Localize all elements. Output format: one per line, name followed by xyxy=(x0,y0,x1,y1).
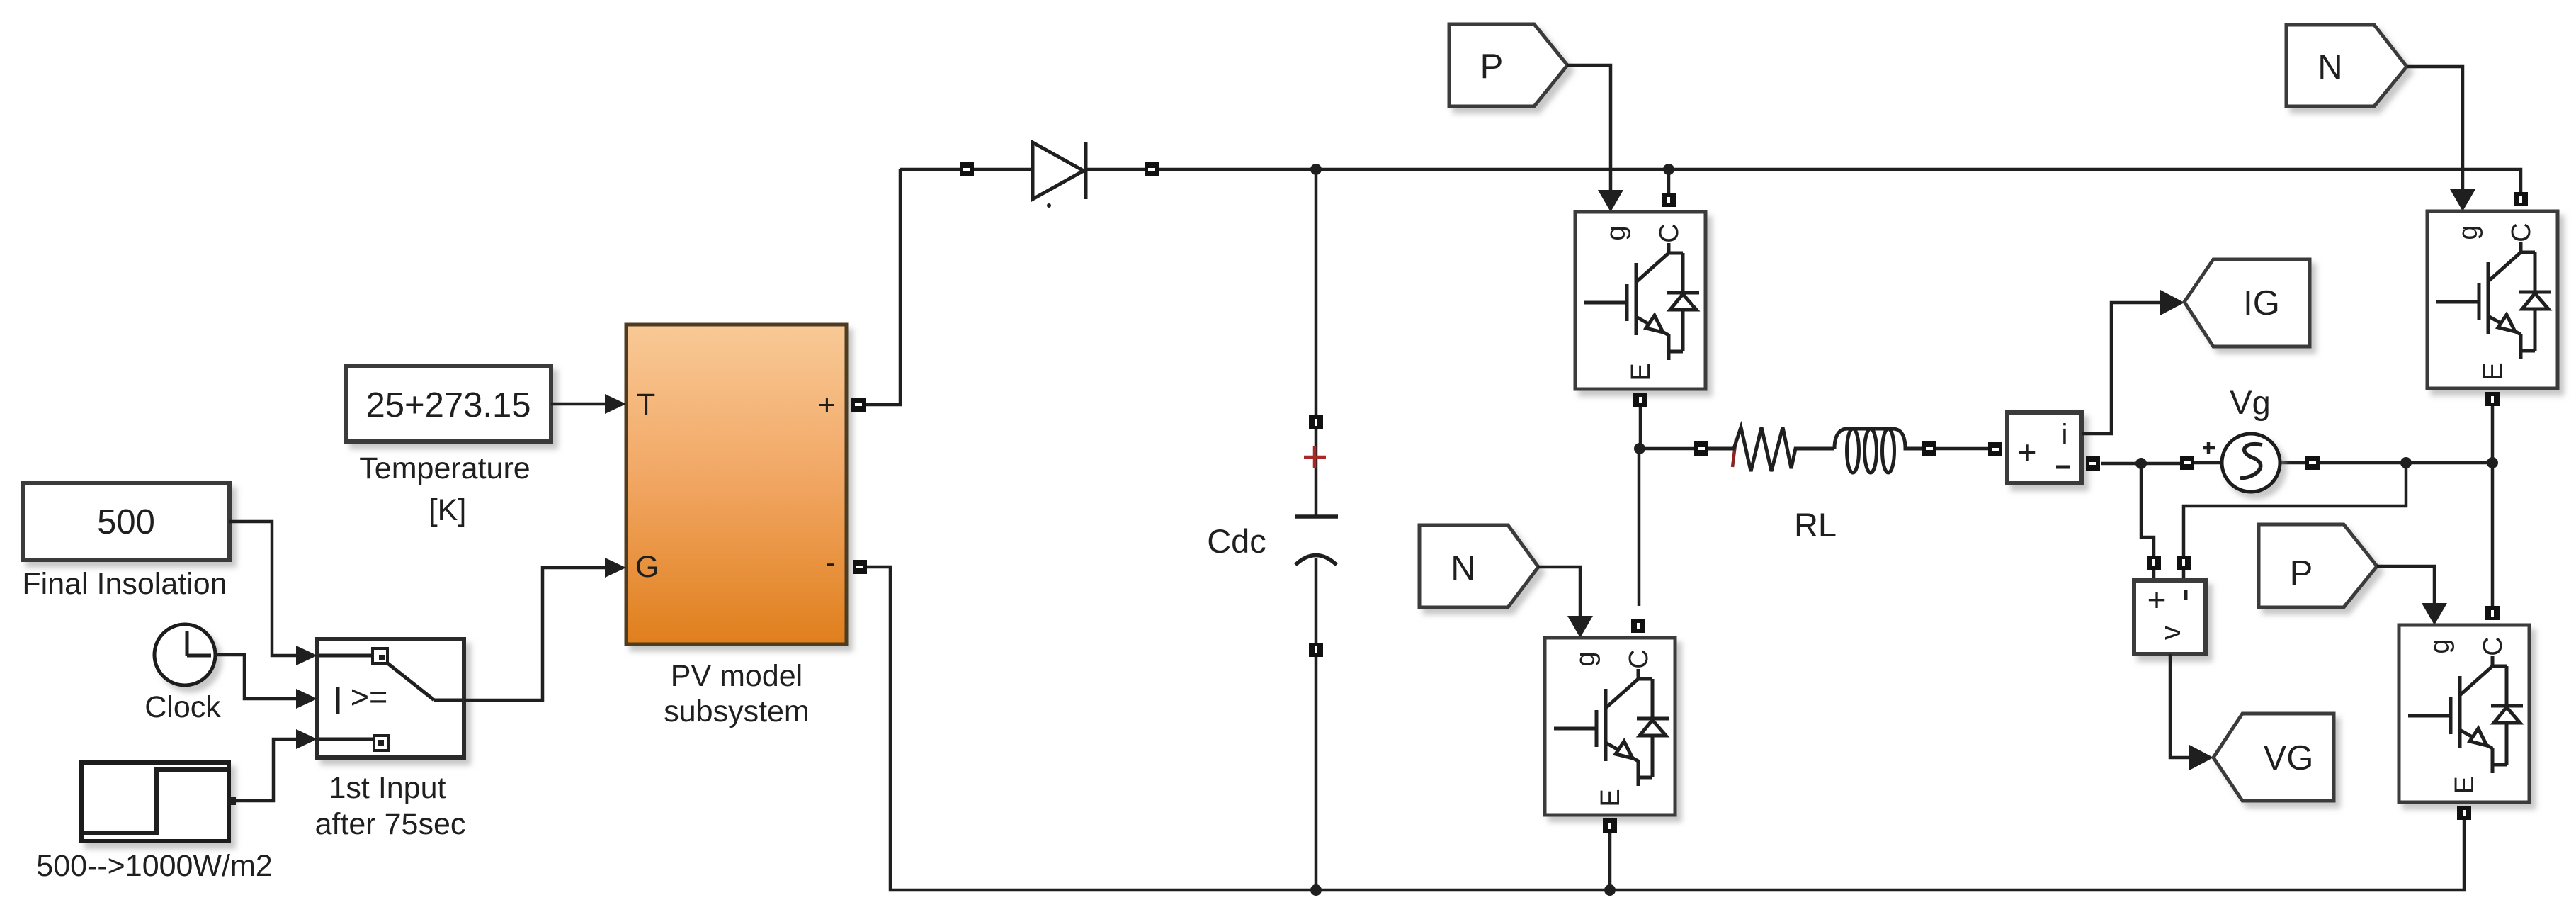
Cdc port top xyxy=(1309,415,1323,429)
svg-text:Final Insolation: Final Insolation xyxy=(22,567,227,601)
right leg vertical wire xyxy=(2491,406,2495,606)
svg-text:[K]: [K] xyxy=(429,493,467,527)
wire RL to i meter xyxy=(1936,447,1988,451)
svg-text:after 75sec: after 75sec xyxy=(315,807,466,841)
node Vm plus junction xyxy=(2135,458,2147,469)
wire IGBT1 E down to RL junction and IGBT2 C xyxy=(1639,407,1694,606)
wire V meter to VG xyxy=(2170,654,2190,758)
transistor IGBT3 xyxy=(2399,606,2529,820)
top bus wire xyxy=(900,169,2521,192)
current measurement block xyxy=(2007,412,2082,483)
junction IGBT2 E bus xyxy=(1604,884,1616,896)
svg-text:Cdc: Cdc xyxy=(1207,522,1266,560)
svg-text:Temperature: Temperature xyxy=(359,451,530,485)
transistor IGBT2 xyxy=(1545,619,1675,833)
resistor R xyxy=(1708,427,1834,471)
constant block 25+273.15 xyxy=(346,366,551,441)
svg-text:>=: >= xyxy=(351,679,388,715)
svg-text:25+273.15: 25+273.15 xyxy=(366,386,531,424)
PV - port xyxy=(853,560,867,574)
goto tag P top xyxy=(1449,24,1567,106)
svg-text:+: + xyxy=(2018,434,2037,471)
constant block 500 xyxy=(23,483,229,560)
svg-text:1st Input: 1st Input xyxy=(329,771,446,805)
voltage measurement block xyxy=(2134,580,2206,654)
wire junction to V+ input xyxy=(2141,463,2154,580)
wire right junction to V input xyxy=(2184,463,2406,580)
wire switch to PV G xyxy=(464,568,606,700)
from tag IG xyxy=(2184,259,2310,347)
inductor L xyxy=(1834,429,1922,449)
RL port left xyxy=(1694,441,1708,456)
PV model subsystem block xyxy=(626,325,846,644)
wire step to switch in3 xyxy=(234,739,297,801)
goto tag N mid xyxy=(1419,525,1538,607)
diode D xyxy=(1033,142,1086,199)
bottom bus wire xyxy=(867,567,2464,890)
plus sign xyxy=(2203,442,2215,454)
svg-text:N: N xyxy=(2317,48,2342,86)
svg-text:subsystem: subsystem xyxy=(664,694,810,728)
svg-text:RL: RL xyxy=(1794,506,1837,544)
wire N to IGBT4 g xyxy=(2407,67,2463,191)
node RL junction xyxy=(1634,443,1645,454)
diode port right xyxy=(1145,162,1159,176)
svg-text:v: v xyxy=(2155,626,2186,640)
red plus marker xyxy=(1304,446,1326,468)
goto tag N top right xyxy=(2286,25,2407,106)
wire P to IGBT3 g xyxy=(2377,566,2434,604)
diode port left xyxy=(960,162,974,176)
PV + port xyxy=(851,398,866,412)
svg-text:-: - xyxy=(826,546,836,580)
svg-text:Vg: Vg xyxy=(2230,383,2271,421)
wire i measurement to IG xyxy=(2082,303,2162,434)
wire i meter out to source xyxy=(2101,463,2492,463)
Cdc branch xyxy=(1315,175,1318,890)
clock block xyxy=(154,624,215,685)
wire P to IGBT1 g xyxy=(1567,65,1611,191)
junction IGBT1 C xyxy=(1663,164,1674,175)
svg-text:T: T xyxy=(637,388,655,422)
wire temp to PV T xyxy=(551,403,606,406)
svg-text:Clock: Clock xyxy=(144,690,221,724)
step block xyxy=(81,763,236,841)
V meter port v xyxy=(2177,556,2191,570)
svg-text:P: P xyxy=(1480,47,1504,86)
svg-text:+: + xyxy=(2147,581,2167,618)
svg-text:PV model: PV model xyxy=(671,659,802,693)
wire PV+ up to top bus xyxy=(866,169,900,405)
svg-text:IG: IG xyxy=(2243,284,2280,322)
capacitor Cdc xyxy=(1295,517,1338,565)
Cdc port bottom xyxy=(1309,643,1323,657)
i meter output port xyxy=(2086,456,2100,471)
wire clock to switch in2 xyxy=(215,655,297,699)
wire N to IGBT2 g xyxy=(1538,567,1580,617)
svg-text:500: 500 xyxy=(97,503,155,541)
RL port right xyxy=(1922,441,1936,456)
svg-text:P: P xyxy=(2290,554,2313,592)
stub to IGBT1 C xyxy=(1667,169,1671,193)
goto tag P bottom xyxy=(2259,524,2377,607)
wire 500 to switch in1 xyxy=(229,522,297,656)
i meter input port xyxy=(1988,442,2002,456)
svg-text:VG: VG xyxy=(2264,739,2314,777)
svg-text:i: i xyxy=(2062,419,2068,450)
V meter port + xyxy=(2147,556,2161,570)
AC source Vg xyxy=(2222,434,2280,492)
from tag VG xyxy=(2213,714,2334,801)
source right port xyxy=(2305,456,2320,470)
transistor IGBT4 xyxy=(2427,192,2558,406)
svg-text:N: N xyxy=(1451,549,1475,587)
svg-text:500-->1000W/m2: 500-->1000W/m2 xyxy=(36,849,272,883)
junction Cdc bottom xyxy=(1310,884,1322,896)
source left port xyxy=(2180,456,2194,470)
node right leg junction xyxy=(2487,457,2498,468)
transistor IGBT1 xyxy=(1575,193,1706,407)
diode name dot xyxy=(1047,203,1051,208)
junction Cdc top xyxy=(1310,164,1322,175)
svg-text:G: G xyxy=(635,550,659,584)
red marker xyxy=(1710,439,1736,467)
node Vm minus junction xyxy=(2400,457,2412,468)
switch block xyxy=(317,639,464,758)
wire IGBT2 E to bottom bus xyxy=(1608,833,1612,890)
svg-text:+: + xyxy=(818,388,836,422)
